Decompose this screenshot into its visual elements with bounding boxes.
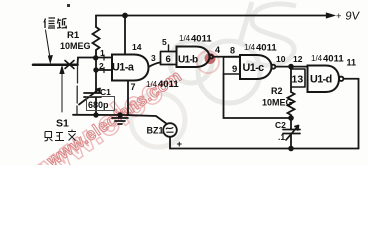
svg-text:1/4: 1/4 (146, 80, 158, 89)
wire BZ1 to bottom rail (169, 137, 171, 149)
wire pin14 (124, 16, 126, 55)
svg-text:U1-d: U1-d (310, 74, 332, 86)
svg-text:S1: S1 (56, 118, 69, 130)
wire U1-d out (344, 78, 359, 80)
svg-text:13: 13 (292, 74, 304, 86)
svg-text:12: 12 (293, 54, 303, 64)
node input dot pin1 (93, 55, 98, 60)
label 680p box (87, 97, 115, 111)
pin5 tick (168, 45, 170, 52)
svg-text:7: 7 (131, 82, 136, 92)
svg-text:2: 2 (99, 61, 104, 71)
touch plate wire (33, 64, 78, 67)
svg-text:C1: C1 (100, 87, 111, 97)
svg-text:U1-c: U1-c (243, 62, 265, 74)
wire ground line (73, 115, 167, 124)
svg-text:+: + (336, 11, 342, 22)
svg-text:BZ1: BZ1 (147, 126, 164, 136)
svg-text:1: 1 (100, 48, 105, 58)
svg-text:1/4: 1/4 (179, 34, 191, 43)
capacitor C2 (283, 126, 300, 141)
junction dot node 12/13 (288, 64, 294, 70)
pin tick 2 (103, 68, 105, 73)
node input dot pin2 (93, 67, 98, 72)
svg-text:4011: 4011 (191, 34, 212, 45)
wire R2 to C2 (290, 118, 292, 130)
svg-text:U1-b: U1-b (178, 55, 198, 66)
watermark big gray arc bottom (131, 93, 185, 147)
junction dot bottom rail (288, 146, 294, 152)
gate U1-b body (177, 47, 210, 68)
svg-text:U1-a: U1-a (112, 62, 135, 74)
wire U1-b out to U1-c (213, 56, 240, 58)
gate U1-a body (112, 55, 149, 81)
U1-b input box (161, 52, 177, 65)
background paper (0, 0, 368, 165)
wire S1 vertical (76, 66, 79, 114)
watermark red blob (205, 53, 216, 64)
svg-text:680p: 680p (88, 100, 109, 110)
wire C1 to ground line (95, 98, 97, 116)
svg-text:4: 4 (215, 45, 220, 55)
resistor R1 (93, 27, 100, 53)
wire C2 to bottom rail (290, 134, 292, 149)
wire rail down to R1 (95, 16, 97, 28)
svg-text:11: 11 (347, 58, 357, 68)
wire right vertical (358, 79, 360, 149)
svg-text:5: 5 (162, 37, 167, 47)
gate U1-d body (308, 66, 340, 93)
label 见正文 (45, 130, 77, 142)
wire U1-c out to U1-d (276, 66, 308, 68)
junction dot C1 bottom (93, 112, 98, 117)
ink speck (67, 4, 70, 7)
label 信纸 (44, 18, 67, 29)
wire feedback pin9 (224, 74, 292, 118)
svg-text:4011: 4011 (256, 43, 277, 54)
svg-text:9V: 9V (345, 11, 361, 23)
+9V arrowhead (325, 13, 334, 18)
ground (112, 115, 128, 124)
U1-b output bubble (210, 55, 214, 59)
svg-text:1/4: 1/4 (311, 54, 323, 63)
watermark big gray S (246, 4, 296, 65)
wire pin2 (96, 69, 112, 71)
svg-text:10: 10 (276, 54, 286, 64)
U1-d input box 13 (291, 69, 305, 87)
node junction top rail to pin 14 (122, 13, 128, 19)
svg-text:6: 6 (166, 54, 171, 65)
svg-text:4011: 4011 (158, 79, 179, 90)
U1-c output bubble (271, 65, 275, 69)
label leader S1 arrow (60, 67, 64, 113)
wire U1-a out to U1-b (149, 62, 161, 67)
capacitor C1 (79, 89, 101, 105)
switch X mark (65, 61, 74, 69)
svg-text:8: 8 (230, 46, 235, 56)
svg-text:14: 14 (132, 42, 142, 52)
resistor R2 (288, 92, 295, 118)
svg-text:.1: .1 (278, 132, 285, 142)
U1-c input box (224, 57, 241, 74)
wire pin7 (127, 81, 129, 116)
junction dot ground (117, 112, 122, 117)
svg-text:9: 9 (232, 64, 237, 75)
svg-text:3: 3 (151, 53, 156, 63)
wire node line R1 to C1 (95, 53, 97, 92)
wire node down to R2 (290, 67, 292, 92)
watermark big gray circle 1 (170, 41, 212, 83)
svg-text:+: + (177, 139, 183, 150)
svg-text:4011: 4011 (323, 54, 344, 65)
wire X to pin1 (78, 58, 113, 65)
gate U1-c body (240, 55, 272, 79)
svg-text:10MEG: 10MEG (60, 41, 91, 51)
wire +9V top rail (96, 15, 327, 17)
U1-d output bubble (339, 77, 343, 81)
watermark big gray circle 2 (198, 41, 260, 103)
watermark gray bar letter (240, 2, 252, 42)
svg-text:1/4: 1/4 (244, 43, 256, 52)
svg-text:R2: R2 (271, 86, 283, 96)
pin tick 1 (103, 55, 105, 60)
label leader 信纸 arrow (46, 30, 53, 63)
svg-text:C2: C2 (275, 120, 286, 130)
svg-text:R1: R1 (67, 30, 80, 41)
junction dot R2 C2 (288, 115, 294, 121)
wire bottom rail (170, 148, 359, 150)
buzzer BZ1 (163, 123, 177, 137)
svg-text:10MEG: 10MEG (262, 98, 293, 108)
